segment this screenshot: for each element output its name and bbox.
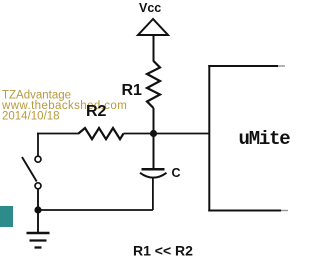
uMite box top edge [208, 65, 278, 67]
uMite box left edge [208, 65, 210, 212]
teal corner square [0, 206, 13, 227]
svg-text:uMite: uMite [239, 128, 291, 150]
svg-text:Vcc: Vcc [139, 1, 161, 15]
svg-text:R2: R2 [86, 103, 107, 120]
capacitor C top plate [142, 168, 165, 171]
uMite box bottom edge [208, 210, 281, 212]
wire ground node to capacitor C bottom [38, 209, 153, 211]
switch SW1 lever [22, 157, 37, 182]
ground node junction dot [34, 206, 41, 213]
resistor R2 [79, 128, 124, 139]
switch SW1 top terminal [35, 156, 41, 162]
wire capacitor C to ground wire [152, 178, 154, 210]
switch SW1 bottom terminal [35, 183, 41, 189]
wire switch to ground node [37, 189, 39, 233]
wire node A to uMite input [154, 133, 211, 135]
svg-text:2014/10/18: 2014/10/18 [2, 111, 60, 123]
capacitor C bottom plate (curved) [140, 173, 167, 178]
svg-text:R1 << R2: R1 << R2 [133, 243, 193, 259]
wire R1 to node A [153, 108, 155, 134]
Vcc power symbol (triangle) [138, 19, 168, 35]
wire R2 to node A [124, 133, 152, 135]
ground symbol [27, 233, 50, 248]
wire node A to capacitor C [153, 134, 155, 169]
wire Vcc to R1 [153, 35, 155, 62]
svg-text:C: C [172, 166, 181, 180]
resistor R1 [147, 61, 160, 108]
node A junction dot [150, 130, 157, 137]
wire switch to R2 [37, 133, 79, 135]
svg-text:R1: R1 [122, 82, 143, 99]
wire R2 corner down to switch [37, 133, 39, 156]
